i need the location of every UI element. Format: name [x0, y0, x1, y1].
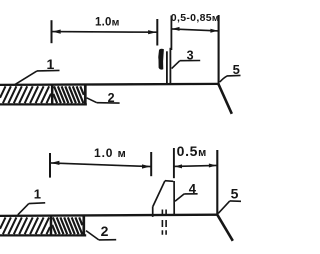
wire: top dimension line 1.0m	[52, 31, 158, 34]
band divider (bottom)	[50, 216, 53, 237]
svg-text:1: 1	[34, 186, 41, 201]
pavement layer 1 hatched block (top)	[0, 86, 51, 103]
node: bottom dim 0.5m left extension tick	[173, 148, 175, 178]
wire: bottom dimension line 1.0m	[50, 163, 151, 167]
label 3 (stake): shelf	[180, 60, 200, 62]
label 2 (bottom): shelf	[99, 239, 116, 241]
label 2 (top): leader	[87, 98, 97, 103]
band divider (top)	[51, 84, 54, 105]
band right edge (bottom)	[82, 216, 85, 237]
bottom dim 0.5m left arrowhead	[175, 164, 183, 168]
node: top dim 0,5-0,85m left extension line	[170, 16, 172, 51]
top dim 0,5-0,85m right arrowhead	[210, 29, 218, 33]
label 5 (bottom edge): shelf	[230, 200, 241, 202]
label 1 (bottom): shelf	[29, 202, 45, 205]
svg-text:5: 5	[231, 186, 239, 202]
svg-text:5: 5	[233, 62, 240, 77]
shoulder layer 2 hatched block (bottom)	[52, 217, 82, 234]
top dim 1.0m left arrowhead	[52, 30, 61, 34]
edge-of-shoulder vertical line (top)	[218, 15, 220, 85]
label 4 (bollard): shelf	[184, 193, 197, 195]
marker stake pole (top), double line	[166, 51, 168, 84]
svg-text:2: 2	[108, 91, 115, 105]
label 1 (top): leader	[15, 71, 38, 85]
ground line (bottom roadway surface)	[0, 215, 218, 216]
label 1 (top): shelf	[37, 69, 60, 72]
ground line (top roadway surface)	[0, 84, 219, 85]
node: top dim 1.0m right extension tick	[156, 19, 158, 46]
node: top dim 1.0m left extension tick	[51, 20, 53, 43]
label 2 (bottom): leader	[86, 231, 99, 240]
pavement layer 1 hatched block (bottom)	[0, 217, 50, 234]
label 4 (bollard): leader	[175, 194, 184, 201]
label 5 (bottom edge): leader	[218, 201, 230, 214]
top dim 0,5-0,85m left arrowhead	[172, 27, 180, 31]
svg-text:4: 4	[189, 181, 197, 196]
signal post (bollard) body	[153, 181, 175, 217]
top dim 1.0m right arrowhead	[148, 30, 157, 34]
slope line (top embankment)	[218, 84, 231, 114]
label 2 (top): shelf	[97, 102, 120, 104]
svg-text:1.0 м: 1.0 м	[94, 146, 127, 160]
bottom dim 1.0m right arrowhead	[142, 164, 151, 168]
bollard buried part: dashed line right	[165, 210, 167, 235]
node: bottom dim 1.0m right tick	[150, 152, 152, 176]
label 1 (bottom): leader	[18, 204, 29, 215]
svg-text:2: 2	[101, 223, 109, 239]
band bottom edge (bottom)	[0, 234, 86, 236]
bottom dim 1.0m left arrowhead	[51, 161, 60, 165]
svg-text:1: 1	[47, 56, 55, 72]
slope line (bottom embankment)	[217, 215, 233, 241]
node: bottom dim 1.0m left tick	[49, 153, 51, 178]
band right edge (top)	[84, 84, 87, 105]
svg-text:3: 3	[187, 48, 194, 62]
wire: bottom dimension line 0.5m	[174, 165, 217, 166]
svg-text:0,5-0,85м: 0,5-0,85м	[171, 12, 220, 24]
wire: top dimension line 0,5-0,85m	[171, 29, 218, 31]
shoulder layer 2 hatched block (top)	[53, 86, 83, 103]
label 5 (top edge): leader curve	[220, 75, 241, 82]
bottom dim 0.5m right arrowhead	[209, 164, 217, 168]
stake flag (filled)	[158, 49, 164, 70]
svg-text:1.0м: 1.0м	[95, 17, 120, 29]
bollard buried part: dashed line left	[161, 210, 163, 235]
label 3 (stake): leader	[172, 61, 180, 69]
edge-of-shoulder vertical line (bottom)	[216, 150, 218, 215]
svg-text:0.5м: 0.5м	[177, 143, 207, 159]
band bottom edge (top)	[0, 103, 87, 105]
